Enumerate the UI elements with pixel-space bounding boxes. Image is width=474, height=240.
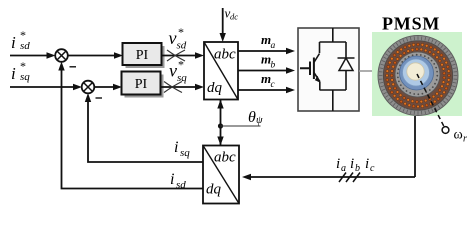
svg-text:sq: sq — [180, 147, 190, 159]
wire theta_psi angle to both transform blocks — [220, 100, 222, 146]
node omega_r terminal circle — [442, 127, 449, 134]
squiggle cross mark on v*_sd wire — [167, 50, 185, 61]
wire inverter output to PMSM — [359, 70, 373, 72]
svg-text:v: v — [169, 61, 177, 81]
svg-text:*: * — [178, 25, 184, 39]
svg-text:sq: sq — [177, 72, 187, 84]
svg-text:dc: dc — [230, 12, 238, 22]
wire junction 2 to PI controller 2 — [94, 86, 119, 88]
svg-text:a: a — [341, 163, 346, 174]
svg-text:abc: abc — [214, 47, 236, 63]
svg-text:a: a — [271, 41, 276, 51]
wire m_a modulation signal to inverter — [238, 50, 292, 52]
svg-text:b: b — [355, 163, 360, 174]
abc to dq transformation block U2 — [203, 146, 239, 204]
wire i_sq feedback to junction 2 — [88, 96, 203, 162]
wire PI 1 output v*_sd to dq-abc block — [161, 55, 201, 57]
node theta_psi stub and label — [221, 125, 261, 127]
dashed rotor position line to omega_r — [417, 74, 445, 128]
svg-text:dq: dq — [206, 182, 222, 198]
wire motor phase currents down — [414, 100, 416, 177]
junction dot theta_psi — [218, 123, 223, 128]
triple slash three-phase mark — [339, 173, 360, 183]
svg-text:sd: sd — [177, 40, 187, 52]
freewheeling diode inside inverter — [338, 42, 355, 90]
svg-text:v: v — [169, 28, 177, 48]
svg-text:b: b — [271, 61, 276, 71]
inverter block (voltage source inverter) — [298, 28, 359, 111]
svg-text:ω: ω — [454, 128, 463, 143]
svg-text:PMSM: PMSM — [382, 14, 440, 34]
svg-text:abc: abc — [214, 150, 236, 166]
wire PI 2 output v*_sq to dq-abc block — [161, 86, 202, 88]
wire i_sd feedback to junction 1 — [62, 65, 204, 189]
node v_dc DC-link input — [222, 8, 224, 39]
svg-text:sd: sd — [20, 40, 30, 52]
svg-text:ψ: ψ — [256, 115, 263, 126]
dq to abc transformation block U1 — [204, 42, 238, 100]
svg-text:sq: sq — [20, 71, 30, 83]
svg-text:i: i — [170, 171, 174, 188]
wire junction 1 to PI controller 1 — [68, 55, 121, 57]
summing junction 2 (i_sq error) — [82, 81, 95, 94]
svg-text:c: c — [370, 163, 375, 174]
svg-text:r: r — [463, 134, 467, 145]
wire m_b modulation signal to inverter — [238, 70, 292, 72]
svg-text:i: i — [174, 139, 178, 156]
svg-text:dq: dq — [207, 80, 223, 96]
svg-text:*: * — [178, 58, 184, 72]
IGBT switch inside inverter — [300, 28, 346, 111]
svg-text:i: i — [350, 156, 354, 172]
squiggle cross mark on v*_sq wire — [164, 82, 182, 93]
svg-text:sd: sd — [176, 179, 186, 191]
wire m_c modulation signal to inverter — [238, 89, 292, 91]
svg-text:θ: θ — [248, 109, 256, 126]
minus sign at junction 2 — [96, 97, 103, 99]
PI controller 1 (d-axis) — [123, 43, 165, 68]
PI controller 2 (q-axis) — [122, 72, 164, 98]
svg-text:PI: PI — [136, 48, 149, 63]
svg-text:i: i — [365, 156, 369, 172]
svg-text:PI: PI — [135, 77, 148, 92]
wire i*_sd input to summing junction 1 — [10, 55, 53, 57]
minus sign at junction 1 — [70, 66, 77, 68]
wire i*_sq input to summing junction 2 — [10, 86, 79, 88]
svg-text:i: i — [11, 33, 16, 52]
wire three-phase current feedback i_abc — [245, 176, 415, 178]
summing junction 1 (i_sd error) — [55, 49, 68, 62]
PMSM motor cross-section — [372, 32, 462, 116]
svg-text:i: i — [336, 156, 340, 172]
svg-text:i: i — [11, 64, 16, 83]
